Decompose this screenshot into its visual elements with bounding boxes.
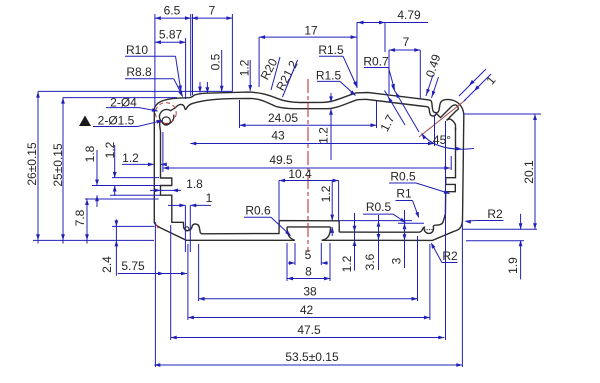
label R20 <box>258 56 281 82</box>
svg-text:10.4: 10.4 <box>288 167 312 181</box>
dim 1 (pocket gap) <box>168 204 185 206</box>
boss thread circle (red dashed) <box>155 103 176 124</box>
profile outer contour <box>154 92 464 240</box>
dim 8 (slot width) <box>287 278 330 280</box>
left wall refs <box>112 177 159 179</box>
svg-text:8: 8 <box>305 265 312 279</box>
dim 0.5 (top) <box>199 82 201 93</box>
svg-text:R10: R10 <box>126 43 148 57</box>
svg-text:R1: R1 <box>396 187 412 201</box>
svg-text:17: 17 <box>304 24 318 38</box>
dim 3.6 <box>378 215 380 270</box>
dim 1.8 (left wall groove) <box>96 150 98 186</box>
dim 6.5 <box>155 17 191 19</box>
bottom extension lines <box>154 222 156 367</box>
label R21.2 <box>273 58 301 93</box>
dim 2.4 <box>115 219 117 275</box>
dim 1.2 (top) <box>249 60 251 91</box>
dim 3 <box>404 210 406 268</box>
dim 20.1 <box>534 114 536 229</box>
svg-text:6.5: 6.5 <box>164 4 181 18</box>
svg-text:R0.6: R0.6 <box>245 204 271 218</box>
dim 1.9 <box>520 214 522 229</box>
dim 1.2 (platform/slot wall) <box>331 181 333 221</box>
label R0.6 <box>245 204 271 218</box>
svg-text:1.2: 1.2 <box>340 255 354 272</box>
slot right bell mouth <box>322 227 331 240</box>
svg-text:2.4: 2.4 <box>100 256 114 273</box>
bottom center slot ceiling <box>287 226 331 228</box>
svg-text:1.2: 1.2 <box>103 141 117 158</box>
svg-text:47.5: 47.5 <box>297 323 321 337</box>
45 deg reference line (red) <box>419 100 466 138</box>
svg-text:1.2: 1.2 <box>238 59 252 76</box>
svg-text:R0.5: R0.5 <box>366 200 392 214</box>
svg-text:43: 43 <box>271 129 285 143</box>
boss pilot hole <box>162 117 170 125</box>
center raised platform <box>202 221 339 234</box>
dim 0.49 <box>423 52 444 79</box>
svg-text:7: 7 <box>403 35 410 49</box>
dim 7 (top right) <box>389 49 420 51</box>
dim 10.4 <box>279 180 339 182</box>
svg-text:1.9: 1.9 <box>506 257 520 274</box>
dim 26±0.15 <box>37 92 39 244</box>
svg-text:4.79: 4.79 <box>397 8 421 22</box>
label R10 <box>126 43 148 57</box>
vertical centerline (red dashed) <box>307 79 309 252</box>
svg-text:R1.5: R1.5 <box>318 43 344 57</box>
dim 17 <box>259 36 357 38</box>
svg-text:53.5±0.15: 53.5±0.15 <box>285 350 339 364</box>
dim 1.2 (saddle wall) <box>330 93 332 102</box>
bottom left screw channel and left wall grooves <box>161 131 203 234</box>
left pocket pilot circle <box>185 227 189 231</box>
dim 45 deg <box>433 133 451 147</box>
dim 1.2 (left wall horizontal) <box>122 163 154 165</box>
right wall inner face and grooves <box>435 128 456 225</box>
label R1.5 (upper) <box>318 43 344 57</box>
svg-text:45°: 45° <box>433 133 451 147</box>
dim 1.2 (floor) <box>354 213 356 271</box>
dim 24.05 <box>240 124 377 126</box>
svg-text:26±0.15: 26±0.15 <box>25 142 39 186</box>
svg-text:25±0.15: 25±0.15 <box>51 143 65 187</box>
svg-text:1.8: 1.8 <box>83 145 97 162</box>
label R2 (right) <box>487 207 503 221</box>
dim 47.5 <box>171 337 445 339</box>
label R1.5 (lower) <box>316 69 342 83</box>
svg-text:R0.7: R0.7 <box>363 55 389 69</box>
svg-text:20.1: 20.1 <box>522 160 536 184</box>
svg-text:1: 1 <box>206 191 213 205</box>
dim 25±0.15 <box>62 98 64 244</box>
svg-text:3.6: 3.6 <box>363 253 377 270</box>
svg-text:7: 7 <box>209 4 216 18</box>
dim 53.5±0.15 <box>154 364 462 366</box>
svg-text:R0.5: R0.5 <box>390 170 416 184</box>
bottom right screw pocket <box>339 225 434 233</box>
label R0.5 (lower) <box>366 200 392 214</box>
svg-text:R1.5: R1.5 <box>316 69 342 83</box>
svg-text:38: 38 <box>303 285 317 299</box>
screw pocket thread dots (right) <box>424 229 433 230</box>
svg-text:R2: R2 <box>442 249 458 263</box>
profile inner top surface <box>175 98 436 116</box>
dim 5.87 <box>155 41 186 43</box>
dim 5.75 <box>118 273 187 275</box>
red mark on left chamfer <box>155 223 158 228</box>
45 deg screw slot (top right) <box>436 105 458 130</box>
svg-text:5: 5 <box>305 248 312 262</box>
svg-text:1.8: 1.8 <box>186 177 203 191</box>
svg-text:42: 42 <box>300 303 314 317</box>
dim 43 <box>190 143 434 145</box>
label R2 (bottom) <box>442 249 458 263</box>
label R0.7 <box>363 55 389 69</box>
ref line y=91.4 (26 level) <box>38 90 233 92</box>
label R0.5 (upper) <box>390 170 416 184</box>
svg-text:5.75: 5.75 <box>121 259 145 273</box>
top left screw boss ring <box>159 108 174 131</box>
svg-text:1.2: 1.2 <box>317 127 331 144</box>
svg-text:1.2: 1.2 <box>319 185 333 202</box>
svg-text:R2: R2 <box>487 207 503 221</box>
svg-text:49.5: 49.5 <box>269 153 293 167</box>
bottom baseline ref <box>33 239 154 241</box>
svg-text:1.2: 1.2 <box>122 151 139 165</box>
dim 5 (slot opening) <box>288 262 295 264</box>
svg-text:2-Ø1.5: 2-Ø1.5 <box>98 114 135 128</box>
svg-text:5.87: 5.87 <box>159 28 183 42</box>
svg-text:24.05: 24.05 <box>268 111 298 125</box>
dim 4.79 <box>358 22 429 24</box>
svg-text:R8.8: R8.8 <box>126 65 152 79</box>
label R1 <box>396 187 412 201</box>
dim 1 (ear thickness) <box>483 73 498 87</box>
dim 7.8 <box>86 198 88 243</box>
extension lines, top <box>154 14 156 108</box>
dim 49.5 <box>163 167 450 169</box>
label R8.8 <box>126 65 152 79</box>
svg-text:0.5: 0.5 <box>209 53 223 70</box>
platform ref right <box>340 220 412 222</box>
dim 38 <box>199 298 418 300</box>
dim 1.8 (pocket) <box>150 189 181 191</box>
label 2-dia4 <box>110 96 137 110</box>
svg-text:3: 3 <box>390 257 404 264</box>
dim 7 (top left) <box>192 17 233 19</box>
svg-text:7.8: 7.8 <box>73 209 87 226</box>
slot left bell mouth <box>287 227 295 240</box>
ref line y=97.6 (25 level) <box>63 97 177 99</box>
dim 1.2 (left wall tab) <box>114 145 116 178</box>
dim 1.7 (slope wall) <box>377 112 397 134</box>
label 2-dia1.5 with triangle <box>79 116 91 127</box>
dim 42 <box>188 317 430 319</box>
